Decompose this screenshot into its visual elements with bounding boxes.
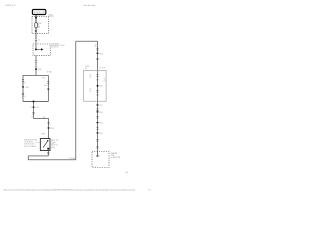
terminal in trailer box: [97, 155, 99, 156]
riser wire up: [75, 41, 77, 160]
svg-text:DAYTIME: DAYTIME: [51, 42, 59, 45]
wire: [35, 40, 37, 44]
inline connector: [96, 127, 98, 129]
svg-text:18: 18: [30, 107, 32, 109]
staircase wire down: [27, 156, 29, 160]
svg-text:18 VT/BK: 18 VT/BK: [69, 158, 75, 160]
svg-text:18: 18: [90, 75, 92, 77]
svg-text:C305: C305: [99, 133, 103, 135]
inline connector: [35, 60, 37, 62]
T split horizontal wire: [23, 74, 48, 76]
svg-text:FUSE: FUSE: [38, 23, 42, 25]
svg-text:BK: BK: [85, 68, 87, 70]
svg-text:POSITION: POSITION: [24, 142, 32, 144]
svg-text:HOT AT ALL TIMES: HOT AT ALL TIMES: [34, 11, 47, 14]
svg-text:LG: LG: [104, 80, 106, 82]
tick + label: [97, 104, 99, 105]
wire below module: [35, 56, 37, 61]
svg-text:1/24/24, 9:41: 1/24/24, 9:41: [5, 5, 16, 7]
svg-text:C100: C100: [35, 107, 39, 109]
svg-text:C1: C1: [38, 40, 40, 42]
left branch tick + label: [22, 86, 24, 87]
svg-text:18 LG: 18 LG: [22, 83, 26, 85]
svg-text:LG: LG: [89, 76, 91, 78]
inline connector inside: [96, 74, 98, 76]
wire into trailer box: [97, 152, 99, 156]
svg-text:A22: A22: [43, 116, 46, 119]
wire down to switch: [48, 119, 50, 139]
svg-text:18 LG: 18 LG: [44, 85, 48, 87]
pass-through component box: [84, 70, 106, 101]
staircase wire left: [28, 155, 48, 157]
tick + label: [97, 111, 99, 112]
svg-text:MODULE: MODULE: [51, 47, 58, 49]
junction dot: [33, 101, 35, 103]
right branch inline connector: [47, 81, 49, 83]
svg-text:C304: C304: [99, 123, 103, 125]
svg-text:CONNECTOR: CONNECTOR: [111, 157, 122, 159]
svg-text:RUNNING LIGHT: RUNNING LIGHT: [51, 45, 64, 47]
wire: [35, 28, 37, 39]
svg-text:C100: C100: [25, 87, 29, 89]
terminal tick C100: [35, 69, 37, 70]
left branch wire: [22, 75, 24, 101]
inline connector: [96, 48, 98, 50]
svg-text:SWITCH (W/: SWITCH (W/: [24, 144, 35, 146]
svg-text:LT GN/: LT GN/: [85, 66, 90, 68]
tick + label: [97, 132, 99, 133]
jog horizontal wire: [34, 118, 49, 120]
svg-text:C202: C202: [99, 105, 103, 107]
tick + label C100: [97, 53, 99, 54]
switch blade: [47, 140, 48, 141]
inline connector: [47, 152, 49, 154]
wire: [35, 62, 37, 75]
inline connector: [96, 116, 98, 118]
svg-text:C100: C100: [99, 53, 103, 55]
svg-text:(M/T): (M/T): [51, 147, 56, 149]
inline connector 2: [96, 57, 98, 59]
node splice dot: [35, 17, 37, 19]
long bottom wire right: [28, 159, 76, 161]
svg-text:S302: S302: [99, 86, 102, 88]
svg-text:14: 14: [38, 25, 40, 27]
svg-text:4: 4: [99, 156, 100, 158]
left branch inline connector 2: [22, 92, 24, 94]
splice dot S302: [97, 85, 99, 87]
svg-text:C100: C100: [99, 112, 103, 114]
svg-text:C100: C100: [38, 69, 42, 71]
svg-text:TOW: TOW: [111, 155, 115, 157]
inline connector inside 2: [96, 89, 98, 91]
inline connector: [96, 108, 98, 110]
svg-text:G01: G01: [125, 172, 128, 174]
tick + label C304: [97, 122, 99, 123]
inline connector: [48, 122, 50, 124]
inline connector: [32, 112, 34, 114]
right branch tick: [47, 89, 49, 90]
tick + label C304: [48, 127, 50, 128]
tick inside box 2: [97, 94, 99, 97]
svg-text:18: 18: [95, 44, 97, 46]
svg-text:18: 18: [104, 79, 106, 81]
fuse F14: [35, 23, 38, 28]
right branch wire: [47, 75, 49, 101]
tick inside box: [97, 78, 99, 81]
svg-text:LG: LG: [89, 90, 91, 92]
svg-text:BACK UP: BACK UP: [51, 139, 59, 142]
wire into module: [35, 44, 37, 49]
svg-text:18: 18: [90, 89, 92, 91]
svg-text:18: 18: [31, 117, 33, 119]
node splice dot in module: [35, 48, 37, 50]
svg-text:1/1: 1/1: [148, 189, 151, 191]
switch S1 box: [40, 139, 50, 151]
fuse block dashed box: [32, 17, 48, 34]
svg-text:FUSE: FUSE: [49, 14, 53, 16]
inline connector: [96, 139, 98, 141]
wire: [35, 18, 37, 23]
top horizontal wire: [76, 40, 98, 42]
wire down from junction: [33, 102, 35, 119]
daytime running light module dashed box: [33, 44, 50, 56]
wire: [35, 15, 37, 18]
battery feed box B+: [32, 10, 46, 15]
svg-text:SWITCH: SWITCH: [51, 145, 58, 147]
rejoin horizontal wire: [23, 101, 48, 103]
svg-text:C304: C304: [50, 128, 54, 130]
connector C1: [35, 38, 37, 40]
right column wire: [97, 41, 99, 151]
fuse block exit terminal: [35, 30, 37, 31]
svg-text:18 LG: 18 LG: [22, 96, 26, 98]
svg-text:https://www.vehiclewiring.exam: https://www.vehiclewiring.example/diagra…: [4, 188, 136, 191]
svg-text:W/ TOW: W/ TOW: [99, 67, 105, 69]
arrow inside module: [36, 48, 41, 50]
left branch inline connector: [22, 79, 24, 81]
svg-text:C100: C100: [42, 78, 46, 80]
svg-text:PARK/NEUTRAL: PARK/NEUTRAL: [24, 138, 37, 141]
inline connector: [96, 146, 98, 148]
trailer tow connector dashed box: [92, 152, 109, 168]
svg-text:Back Up Lamps: Back Up Lamps: [84, 5, 96, 7]
svg-text:VT/BK: VT/BK: [41, 133, 45, 135]
svg-text:TRAILER: TRAILER: [111, 152, 118, 155]
leader line: [35, 142, 40, 144]
svg-text:LG: LG: [95, 46, 97, 48]
svg-text:BLOCK: BLOCK: [49, 16, 54, 18]
wire below switch: [47, 151, 49, 156]
svg-text:W/DRL: W/DRL: [47, 72, 53, 74]
